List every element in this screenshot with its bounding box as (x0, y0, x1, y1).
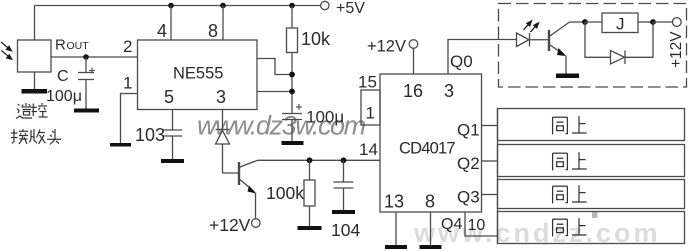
svg-text:100μ: 100μ (46, 88, 82, 105)
relay unit dashed box (499, 4, 687, 88)
wire receiver top to +5V rail (34, 6, 36, 41)
label Q1 (457, 121, 480, 140)
capacitor 100u right (282, 104, 302, 141)
wire receiver out to pin2 (51, 56, 138, 58)
pin 15 (358, 73, 377, 92)
node rail-pin4 (168, 3, 174, 9)
svg-text:1: 1 (366, 104, 375, 123)
wire pin 4 (170, 6, 172, 41)
wire node to relay J (585, 21, 602, 23)
NE555 right stub lower (257, 91, 292, 93)
label 1 in box (366, 104, 375, 123)
unit box 1 (498, 109, 685, 141)
node 100k (307, 157, 313, 163)
svg-text:16: 16 (403, 81, 423, 101)
capacitor C 100u (78, 68, 95, 80)
wire receiver to ground (34, 72, 36, 89)
pin 16 (403, 81, 423, 101)
wire Q1 (482, 125, 498, 127)
label 100u right (306, 108, 344, 127)
pin 13 (384, 192, 404, 212)
svg-text:8: 8 (425, 192, 435, 212)
pin 3 (444, 81, 454, 101)
node J right (650, 19, 656, 25)
pin 8 (425, 192, 435, 212)
label tongshang 1 (553, 116, 587, 134)
svg-text:C: C (57, 68, 69, 85)
+12V terminal top (409, 40, 418, 49)
wire +12V to pin16 (413, 48, 415, 74)
speck (592, 212, 598, 218)
wire pin 3 (222, 110, 224, 131)
label CD4017 (399, 140, 455, 158)
bus line left of units (497, 109, 499, 244)
label J (616, 15, 625, 34)
diode D1 (216, 130, 230, 145)
svg-text:J: J (616, 15, 625, 34)
label 100k (266, 183, 304, 203)
+5V terminal (321, 1, 329, 9)
resistor 100k (304, 160, 315, 226)
svg-text:100k: 100k (266, 183, 304, 203)
label Q0 (450, 52, 473, 71)
wire C to ground (85, 80, 87, 109)
wire J to node right (638, 21, 653, 23)
wire Q0 to LED (448, 40, 517, 75)
ground pin1 (110, 143, 131, 147)
wire Q4 pin10 (465, 212, 498, 236)
label +12V rotated (668, 31, 685, 68)
svg-text:+5V: +5V (336, 0, 365, 17)
pin 1 box (361, 90, 380, 125)
NE555 right stub upper (257, 59, 292, 75)
svg-text:4: 4 (157, 21, 167, 41)
transistor Q1 (239, 160, 258, 193)
svg-text:103: 103 (135, 125, 165, 145)
label tongshang 2 (553, 152, 587, 170)
wire collector rail to pin14 (258, 159, 381, 161)
wire Q2 (482, 160, 498, 162)
svg-text:15: 15 (358, 73, 377, 92)
label jieshoutou (11, 129, 61, 145)
svg-text:OUT: OUT (67, 40, 90, 52)
wire emitter to ground (565, 56, 567, 74)
watermark bottom (413, 218, 661, 248)
svg-text:10k: 10k (301, 29, 331, 49)
+5V rail wire (35, 5, 321, 7)
unit box 3 (498, 180, 685, 209)
pin 5 (164, 87, 174, 107)
svg-text:13: 13 (384, 192, 404, 212)
wire LED to base (530, 39, 549, 41)
node Rout (83, 54, 89, 60)
svg-text:CD4017: CD4017 (399, 140, 455, 158)
wire Q3 (482, 194, 498, 196)
svg-text:100μ: 100μ (306, 108, 344, 127)
label +5V (336, 0, 365, 17)
svg-text:3: 3 (444, 81, 454, 101)
node rail-pin8 (220, 3, 226, 9)
capacitor 103 (163, 130, 182, 136)
ground receiver (22, 89, 48, 94)
ground pin8 (420, 245, 442, 249)
label 103 (135, 125, 165, 145)
relay J (602, 13, 638, 33)
svg-text:1: 1 (123, 74, 132, 93)
svg-text:5: 5 (164, 87, 174, 107)
label C (57, 68, 69, 85)
pin 8 (208, 21, 218, 41)
ground pin13 (385, 245, 407, 249)
wire pin 1 to ground (121, 94, 138, 144)
svg-text:8: 8 (208, 21, 218, 41)
IR light arrows (1, 42, 12, 59)
remote receiver box (18, 40, 52, 72)
label 10k (301, 29, 331, 49)
ground 103 (161, 159, 184, 163)
label Q2 (457, 154, 480, 173)
node rail-10k (289, 3, 295, 9)
+12V terminal bottom (252, 219, 261, 228)
svg-text:Q3: Q3 (457, 188, 480, 207)
svg-text:+12V: +12V (367, 38, 406, 56)
LED arrows (524, 21, 539, 32)
pin 14 (359, 140, 378, 159)
ground C (74, 109, 99, 113)
node collector (582, 19, 588, 25)
unit box 2 (498, 145, 685, 177)
label tongshang 3 (553, 185, 587, 203)
svg-text:10: 10 (468, 217, 486, 234)
watermark center (197, 111, 366, 141)
capacitor 104 (334, 160, 354, 210)
ground 100u right (282, 141, 304, 145)
ground 104 (332, 210, 355, 214)
label Q3 (457, 188, 480, 207)
label 104 (331, 220, 360, 240)
pin 10 (468, 217, 486, 234)
label +12V bottom (209, 215, 251, 235)
unit box 4 (498, 212, 685, 244)
label +12V top (367, 38, 406, 56)
pin 2 (123, 37, 132, 56)
pin 4 (157, 21, 167, 41)
svg-text:+12V: +12V (209, 215, 251, 235)
svg-text:R: R (55, 37, 66, 54)
resistor 10k (287, 6, 298, 114)
ground 100k (298, 226, 322, 230)
wire node to capacitor C (85, 57, 87, 73)
label NE555 (173, 65, 223, 83)
label R OUT (55, 37, 89, 54)
svg-text:2: 2 (123, 37, 132, 56)
svg-text:NE555: NE555 (173, 65, 223, 83)
node 10k-555 (289, 72, 295, 78)
svg-text:Q1: Q1 (457, 121, 480, 140)
wire emitter to +12V (255, 193, 257, 219)
svg-text:+12V: +12V (668, 31, 685, 68)
flyback diode D3 (585, 22, 653, 64)
svg-text:3: 3 (216, 87, 226, 107)
label 100u (46, 88, 82, 105)
label yaokong (16, 103, 48, 119)
label Q4 (441, 216, 462, 233)
wire node to +12V (653, 21, 672, 23)
svg-text:Q2: Q2 (457, 154, 480, 173)
wire 103 to ground (172, 136, 174, 159)
wire D1 to base (223, 144, 239, 173)
+12V terminal relay (672, 18, 681, 27)
svg-text:104: 104 (331, 220, 360, 240)
svg-text:Q4: Q4 (441, 216, 462, 233)
pin 3 (216, 87, 226, 107)
transistor Q2 relay (549, 22, 570, 56)
LED D2 (517, 33, 530, 47)
pin 1 (123, 74, 132, 93)
node 104 (341, 157, 347, 163)
wire pin 8 (222, 6, 224, 41)
ground relay transistor (556, 74, 579, 79)
label tongshang 4 (553, 218, 587, 236)
node 555-cap (289, 89, 295, 95)
wire pin8 to ground (430, 212, 432, 245)
wire collector to node (570, 21, 586, 23)
wire pin 5 (172, 110, 174, 131)
wire pin13 to ground (395, 212, 397, 245)
IC U2 CD4017 (380, 74, 482, 212)
op-amp U1 NE555 (138, 40, 258, 110)
svg-text:Q0: Q0 (450, 52, 473, 71)
svg-text:14: 14 (359, 140, 378, 159)
